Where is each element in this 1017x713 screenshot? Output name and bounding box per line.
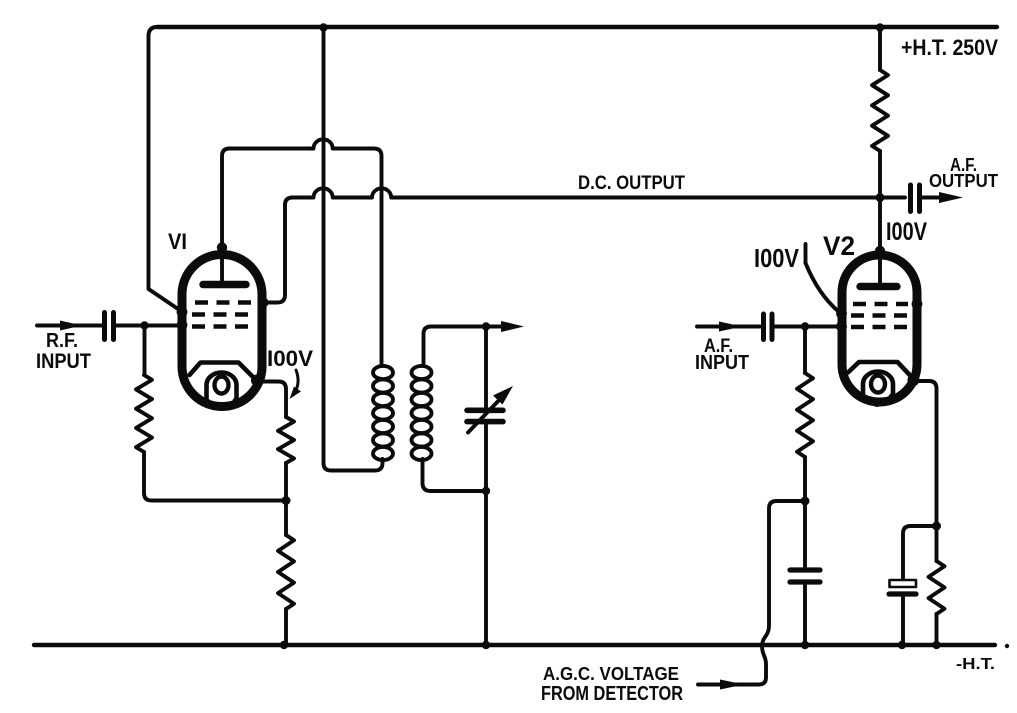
wire C6 bottom lead (901, 597, 905, 645)
arrowhead A.G.C. input (720, 680, 744, 690)
wire variable capacitor top lead (484, 327, 488, 408)
node speck on -H.T. rail end (1005, 644, 1009, 648)
node blob V1 cathode exit (251, 375, 263, 387)
svg-text:I00V: I00V (267, 346, 313, 371)
wire C6 top lead from cathode junction (903, 526, 937, 580)
capacitor C4 A.F. coupling plates (761, 314, 766, 340)
resistor R5 V2 grid (803, 327, 807, 374)
wire from C4 to V2 grid (774, 325, 841, 329)
node junction on top rail at x=880 (876, 23, 884, 31)
wire D.C. output line from V1 screen up and across (hops over two verticals) (263, 188, 905, 302)
resistor R4 anode load from +H.T. to D.C. output line (878, 28, 882, 70)
valve V2 cathode hood (848, 362, 914, 379)
wire V1 cathode exit to R2 (258, 382, 286, 418)
valve V1 cathode hood (190, 363, 257, 381)
svg-text:D.C. OUTPUT: D.C. OUTPUT (578, 173, 685, 194)
node junction on top rail at x=324 (319, 23, 327, 31)
wire from C1 to V1 grid (116, 324, 181, 328)
wire vertical from top rail junction down to L1 primary bottom (324, 28, 383, 471)
valve V1 heater (207, 373, 237, 399)
svg-text:INPUT: INPUT (36, 350, 91, 373)
svg-text:-H.T.: -H.T. (956, 656, 995, 673)
valve V1 grid dashed rows (195, 300, 251, 305)
wire -H.T. bottom rail (34, 643, 995, 647)
node junction of variable capacitor top on arrow line (482, 322, 490, 330)
capacitor C3 A.G.C. bypass plates (790, 567, 820, 572)
svg-text:I00V: I00V (886, 218, 927, 246)
wire R.F. input line (37, 324, 102, 328)
valve V1 anode plate bar (203, 281, 246, 288)
node junction V2 anode at envelope top (875, 246, 885, 256)
wire C3 bottom lead (803, 585, 807, 645)
node junction V2 cathode network (932, 522, 941, 531)
resistor R6 V2 cathode (935, 526, 939, 561)
svg-text:V2: V2 (823, 231, 855, 261)
valve V2 envelope (842, 255, 917, 402)
wire +H.T. top rail (157, 25, 997, 29)
svg-text:FROM DETECTOR: FROM DETECTOR (541, 683, 683, 705)
svg-text:I00V: I00V (754, 243, 800, 273)
wire A.G.C. line from junction, hops across -H.T. rail, to arrow (698, 501, 805, 685)
wire A.F. input line (697, 325, 760, 329)
svg-text:+H.T. 250V: +H.T. 250V (901, 35, 998, 60)
valve V2 heater (863, 372, 893, 395)
svg-text:OUTPUT: OUTPUT (929, 171, 998, 191)
inductor L1 primary winding (373, 366, 393, 460)
wire V1 anode lead up and over to L1 primary top (hops over vertical) (222, 139, 382, 366)
wire screen-grid feed from +H.T. rail down to V1 grid (149, 27, 182, 311)
arrowhead A.F. input (719, 322, 742, 332)
node junction D.C. output line with V2 anode feed (876, 193, 885, 202)
node blobs V2 heater legs (860, 394, 867, 401)
valve V2 grid dashed rows (853, 302, 908, 307)
node junction R.F. grid leak tap (140, 321, 148, 329)
capacitor C1 R.F. coupling plates (102, 313, 107, 340)
valve V1 envelope (182, 255, 262, 407)
svg-text:A.G.C. VOLTAGE: A.G.C. VOLTAGE (543, 664, 679, 684)
node blobs V1 heater legs at envelope (203, 398, 210, 405)
node junction A.F. grid resistor tap (801, 322, 809, 330)
node blob V2 cathode exit (908, 374, 920, 386)
inductor L2 secondary winding (412, 366, 432, 460)
node junction R1/R2/R3 (282, 496, 291, 505)
svg-text:VI: VI (168, 229, 187, 254)
node junction V1 anode at envelope top (217, 242, 227, 252)
valve V2 anode plate bar (860, 283, 897, 290)
resistor R1 V1 grid leak (143, 326, 147, 376)
resistor R3 to -H.T. rail (284, 501, 288, 536)
svg-text:INPUT: INPUT (695, 352, 749, 374)
annotation 100V curved arrow at V1 cathode (294, 370, 298, 394)
node junction secondary bottom / cap lead (482, 487, 490, 495)
wire L2 secondary bottom to variable capacitor bottom junction (423, 459, 487, 491)
capacitor C2 variable tuning capacitor plates (467, 407, 503, 413)
wire V2 cathode exit to bias network (913, 381, 937, 526)
wire V2 grid bypass cap top lead (803, 501, 807, 567)
wire and arrowhead A.F. output (922, 196, 941, 200)
node junctions on V1 grid pins (177, 307, 188, 318)
resistor R2 V1 cathode bias (278, 417, 294, 463)
node junctions on V2 grid pins (836, 308, 847, 319)
capacitor C6 V2 cathode bypass plates (890, 580, 917, 587)
node junction A.G.C. tap (801, 497, 810, 506)
arrow diagonal of variable capacitor (468, 396, 503, 433)
wire variable capacitor bottom lead down to -H.T. rail (484, 425, 488, 645)
node junctions on -H.T. rail (280, 641, 288, 649)
annotation 100V tick and curve at V2 grid (804, 244, 808, 263)
wire L2 secondary top to tuned-circuit arrow line (424, 327, 503, 367)
arrowhead on tuned circuit output line (501, 321, 524, 332)
arrowhead R.F. input (60, 321, 82, 331)
capacitor C5 A.F. output coupling plates (908, 185, 913, 212)
svg-text:R.F.: R.F. (46, 330, 78, 352)
